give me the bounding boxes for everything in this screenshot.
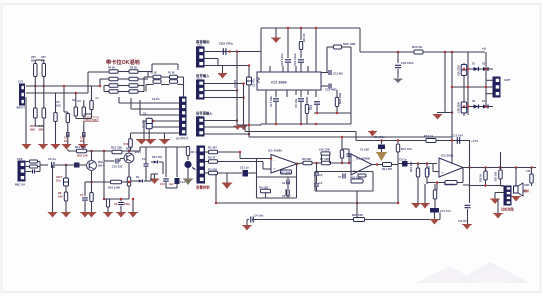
wire — [501, 185, 505, 187]
ground G9 — [137, 140, 147, 145]
ground G12 — [62, 213, 70, 218]
resistor R10 62K — [65, 186, 67, 192]
resistor matrix row3a — [104, 85, 109, 87]
ground G19 — [243, 226, 251, 231]
wire collector Q2 — [128, 151, 130, 153]
resistor R19B 1k — [426, 139, 436, 143]
capacitor C21 1u — [243, 170, 249, 177]
wire minus input — [433, 171, 439, 173]
wire sub-rail — [314, 112, 351, 114]
node — [275, 123, 278, 126]
wire — [139, 147, 141, 151]
wire — [128, 192, 130, 199]
diode bridge upper D1 D2 — [467, 52, 469, 115]
svg-text:C3: C3 — [319, 173, 323, 177]
ground G12b — [48, 213, 57, 218]
wire — [144, 120, 180, 122]
wire base Q2 — [119, 160, 120, 162]
svg-text:+17V: +17V — [471, 139, 478, 143]
node — [103, 150, 106, 153]
wire — [375, 183, 377, 185]
wire +17V line — [356, 140, 470, 142]
svg-text:R1 1K: R1 1K — [168, 72, 175, 75]
resistor R16A 47k — [417, 162, 420, 165]
svg-text:C10 222: C10 222 — [112, 165, 123, 169]
resistor R2 47K — [205, 161, 209, 163]
capacitor CD2 470u — [223, 48, 226, 55]
ground G24 — [430, 220, 439, 225]
wire — [43, 77, 45, 87]
potentiometer CW body — [321, 152, 330, 155]
wire — [452, 86, 493, 88]
node — [484, 166, 487, 169]
node — [228, 50, 231, 53]
resistor R16 — [75, 93, 77, 107]
wire — [166, 187, 177, 189]
svg-text:R8 120K: R8 120K — [280, 171, 291, 175]
decor — [415, 266, 475, 283]
resistor R13 — [130, 133, 132, 139]
pin stubs IC2 bottom — [265, 90, 267, 97]
svg-text:C2B 2200: C2B 2200 — [458, 102, 461, 113]
svg-text:26Y: 26Y — [31, 55, 36, 59]
svg-text:C21 1u: C21 1u — [240, 166, 249, 170]
svg-text:耳机电路: 耳机电路 — [501, 207, 515, 212]
wire — [187, 168, 189, 179]
diode D1 blue — [131, 180, 138, 182]
svg-text:C4 10u: C4 10u — [254, 214, 264, 218]
node — [397, 51, 400, 54]
wire — [331, 162, 353, 164]
capacitor C21 electrolytic — [461, 65, 467, 76]
ground G15 — [104, 213, 112, 218]
resistor R17B — [426, 162, 429, 165]
svg-text:C13 4M2: C13 4M2 — [325, 88, 337, 92]
wire vertical bus a — [236, 52, 238, 126]
wire output IC3 — [463, 167, 536, 169]
wire — [237, 124, 261, 126]
wire — [204, 58, 218, 60]
wire — [52, 165, 54, 212]
resistor R7 small — [30, 160, 38, 163]
resistor matrix row3b — [118, 85, 129, 87]
svg-text:2u2: 2u2 — [169, 182, 174, 186]
label VCA 56K — [84, 117, 98, 122]
wire — [65, 165, 67, 178]
capacitor C15 4M label — [321, 85, 328, 87]
resistor R9 small — [30, 165, 38, 168]
node — [444, 51, 447, 54]
capacitor C18 100u — [285, 60, 291, 62]
wire — [451, 52, 453, 163]
wire — [103, 86, 105, 92]
transistor Q1 9014 — [87, 161, 97, 171]
svg-text:喇叭: 喇叭 — [524, 188, 530, 193]
resistor R22B 360 — [500, 152, 502, 170]
ground G23 — [421, 204, 429, 209]
resistor R23B right edge — [530, 166, 533, 169]
svg-text:OUTPUT: OUTPUT — [176, 137, 189, 141]
wire — [486, 79, 493, 81]
capacitor C6 22 — [287, 180, 289, 185]
svg-text:高音输出: 高音输出 — [196, 39, 210, 44]
wire — [34, 77, 36, 87]
svg-text:C6 102: C6 102 — [282, 182, 291, 185]
connector CZ8 headphone — [504, 186, 511, 205]
resistor R1B — [153, 75, 161, 78]
resistor R2B — [170, 75, 178, 78]
resistor in box — [358, 174, 366, 177]
wire — [342, 148, 349, 150]
svg-text:C9 1u: C9 1u — [399, 158, 407, 162]
capacitor C1 47u — [248, 66, 250, 78]
capacitor C1B 100u — [380, 139, 383, 142]
svg-text:C14: C14 — [160, 182, 165, 186]
svg-text:R22 10W: R22 10W — [343, 42, 356, 46]
capacitor C13 — [314, 184, 319, 186]
svg-text:CZP: CZP — [504, 78, 510, 82]
svg-text:C19 100u: C19 100u — [293, 53, 297, 66]
ground G2 — [222, 66, 224, 74]
svg-text:R4 10K: R4 10K — [259, 186, 268, 190]
svg-text:C5: C5 — [56, 100, 60, 104]
svg-text:R24 1K: R24 1K — [303, 33, 306, 42]
resistor matrix row4b — [118, 91, 129, 93]
resistor R25 2R2 — [335, 98, 338, 107]
svg-text:INPUT: INPUT — [17, 106, 26, 110]
resistor R15A 1K2 — [397, 141, 399, 144]
ground G22 — [412, 204, 420, 209]
resistor R18 22K — [445, 181, 457, 185]
node — [65, 164, 68, 167]
svg-text:26Y: 26Y — [41, 55, 46, 59]
capacitor C7 22u electrolytic — [64, 178, 69, 186]
ground G16 — [117, 213, 125, 218]
wire — [103, 162, 105, 199]
resistor R11 15K — [77, 149, 87, 153]
resistor R1 47K — [205, 151, 209, 153]
svg-text:62K: 62K — [58, 195, 63, 199]
connector CZ5 OUTPUT — [180, 97, 187, 135]
wire — [138, 71, 152, 73]
svg-text:R14 R1: R14 R1 — [427, 166, 431, 175]
svg-text:R17 360: R17 360 — [495, 171, 498, 181]
wire — [485, 52, 487, 62]
ground small b — [240, 126, 247, 130]
svg-text:C16: C16 — [309, 104, 313, 110]
wire — [372, 164, 382, 166]
svg-text:C17 28u: C17 28u — [269, 96, 273, 107]
wire long bus to right — [244, 125, 246, 132]
svg-text:音量控制: 音量控制 — [196, 185, 210, 190]
speaker SP1 — [514, 186, 519, 193]
wire — [356, 203, 358, 220]
node — [468, 166, 471, 169]
wire — [204, 97, 244, 99]
wire — [25, 97, 27, 144]
wire — [359, 28, 361, 52]
ground gray — [394, 79, 402, 83]
svg-text:103: 103 — [64, 139, 69, 143]
ground G1 — [275, 28, 277, 38]
svg-text:R2 1K: R2 1K — [150, 72, 157, 75]
resistor R20B 10K — [354, 218, 365, 222]
svg-text:22u: 22u — [56, 179, 61, 183]
svg-text:R6 10K: R6 10K — [302, 157, 311, 161]
capacitor C7 10u electrolytic — [146, 118, 152, 129]
node — [515, 166, 518, 169]
wire — [151, 64, 153, 72]
wire feedback — [427, 182, 463, 184]
wire — [64, 111, 68, 113]
svg-text:R18 1K: R18 1K — [480, 174, 483, 182]
svg-text:IC3 2030: IC3 2030 — [441, 154, 454, 158]
ground G26b — [463, 225, 471, 230]
connector CZ4 aux input — [197, 117, 205, 136]
svg-text:R22 15K: R22 15K — [77, 154, 88, 158]
wire — [84, 113, 92, 115]
svg-text:R5A: R5A — [30, 124, 36, 128]
wire — [486, 93, 493, 95]
resistor R11 387 — [383, 163, 392, 167]
connector CZ1 signal input — [197, 80, 205, 99]
wire — [265, 97, 267, 104]
svg-text:R1 467: R1 467 — [208, 146, 217, 150]
svg-text:C28: C28 — [526, 170, 531, 173]
wire long bus lower — [249, 136, 452, 138]
svg-text:信号源输入: 信号源输入 — [196, 111, 213, 116]
capacitor C2 223 — [287, 190, 289, 195]
wire rail y218 — [252, 219, 440, 221]
ground G6 — [51, 145, 60, 150]
wire — [183, 77, 185, 97]
svg-text:56K: 56K — [30, 128, 35, 132]
capacitor small — [33, 170, 35, 174]
svg-text:R25 2R2: R25 2R2 — [338, 92, 342, 104]
wire — [239, 152, 241, 159]
svg-text:R3 3K: R3 3K — [130, 67, 137, 70]
wire — [99, 79, 101, 86]
ground small a — [234, 126, 241, 130]
resistor R17 emitter — [90, 193, 93, 202]
capacitor in box — [343, 174, 345, 179]
ground G7 — [62, 145, 71, 150]
diode D13 blue — [151, 161, 153, 163]
svg-text:MIC-2A: MIC-2A — [15, 183, 26, 187]
wire — [437, 112, 452, 114]
resistor R26 76 — [306, 97, 308, 104]
wire — [215, 174, 217, 203]
wire — [26, 92, 88, 94]
wire — [436, 183, 438, 191]
capacitor C4 — [348, 152, 350, 163]
ground G20 — [369, 132, 377, 137]
svg-text:C18 100u: C18 100u — [280, 53, 284, 66]
wire — [161, 84, 170, 86]
red ground mid — [150, 179, 159, 184]
wire — [131, 132, 180, 134]
capacitor C24 blue — [176, 147, 178, 177]
wire — [35, 125, 44, 127]
svg-text:R6: R6 — [31, 59, 35, 63]
resistor R2C — [170, 80, 178, 83]
capacitor C19 100u — [298, 60, 304, 62]
ground G11 — [160, 140, 170, 145]
resistor R19 120K — [111, 180, 122, 184]
capacitor C11 104 — [145, 164, 147, 166]
svg-text:C2R: C2R — [524, 183, 529, 187]
wire bottom rail IC2 — [261, 123, 351, 125]
wire — [287, 28, 289, 58]
diode bridge lower D3 D4 — [463, 106, 493, 108]
wire — [119, 102, 180, 104]
node — [499, 166, 502, 169]
wire — [104, 198, 129, 200]
capacitor C23 100u — [397, 52, 399, 63]
wire rail y151 — [68, 150, 122, 152]
ground gray under LED — [184, 179, 193, 185]
svg-text:R12 22K: R12 22K — [111, 146, 123, 150]
resistor R15 — [83, 100, 85, 107]
capacitor C16 203 — [83, 122, 85, 134]
svg-text:103: 103 — [56, 104, 61, 108]
svg-text:C7204: C7204 — [233, 80, 237, 88]
node — [356, 202, 359, 205]
node — [499, 166, 502, 169]
capacitor C14 2u2 — [165, 147, 167, 177]
resistor R20 5K6 — [414, 50, 423, 54]
svg-text:C13 M2: C13 M2 — [333, 72, 343, 76]
wire — [118, 97, 120, 103]
capacitor C22 electrolytic — [461, 102, 467, 113]
capacitor C2 103 — [67, 132, 69, 137]
svg-text:56K: 56K — [39, 128, 44, 132]
resistor R7 10K — [322, 161, 331, 165]
capacitor C5 10u — [298, 99, 304, 101]
svg-text:R11 15K: R11 15K — [75, 145, 87, 149]
ground G10 — [146, 140, 156, 145]
wire — [434, 213, 436, 220]
connector CZ3 power — [493, 77, 500, 97]
wire — [356, 191, 358, 203]
wire — [162, 162, 164, 174]
wire — [469, 141, 471, 186]
svg-text:R8: R8 — [58, 191, 62, 195]
wire rail y200 — [216, 202, 398, 204]
svg-text:C13 104: C13 104 — [452, 134, 463, 138]
svg-text:R19 1k: R19 1k — [424, 134, 434, 138]
svg-text:C4 10M: C4 10M — [360, 149, 369, 152]
resistor R8A 56K — [34, 86, 36, 108]
resistor matrix row1a — [109, 70, 118, 73]
node — [270, 157, 273, 160]
wire — [143, 77, 145, 92]
feedback box IC1B — [314, 172, 316, 192]
svg-text:CZ1: CZ1 — [18, 80, 24, 84]
wire — [355, 132, 357, 141]
svg-text:R3 22K: R3 22K — [208, 167, 217, 171]
svg-text:R4 3K: R4 3K — [108, 67, 115, 70]
node output — [296, 162, 299, 165]
ground G14 — [81, 213, 89, 218]
resistor R23 1K — [300, 28, 302, 40]
connector CZ2 treble output — [197, 47, 205, 67]
resistor R12 22K — [112, 150, 122, 154]
capacitor C4 10u — [251, 217, 253, 223]
wire — [515, 168, 517, 187]
svg-text:R20 5K: R20 5K — [412, 45, 423, 49]
svg-text:R18 22K: R18 22K — [444, 183, 455, 187]
wire — [360, 51, 414, 53]
wire emitter Q2 — [128, 164, 130, 178]
ground G13 — [87, 213, 96, 218]
svg-text:CW 10K: CW 10K — [319, 148, 331, 152]
wire — [463, 184, 470, 186]
wire — [146, 84, 154, 86]
capacitor C13B 104 — [457, 137, 459, 144]
ground G17 — [129, 213, 137, 218]
svg-text:C1 100u: C1 100u — [374, 135, 385, 139]
svg-text:100u: 100u — [124, 202, 130, 206]
wire — [470, 185, 505, 187]
wire — [350, 47, 352, 124]
svg-text:R13: R13 — [124, 142, 129, 146]
wire — [147, 72, 149, 78]
wire — [204, 65, 249, 67]
wire — [485, 62, 487, 107]
svg-text:C5 10u: C5 10u — [294, 98, 298, 108]
svg-text:IC1 4558A: IC1 4558A — [268, 149, 283, 153]
wire — [247, 219, 249, 221]
svg-text:R2 47: R2 47 — [208, 156, 216, 160]
wire collector Q1 — [91, 151, 93, 160]
wire — [315, 28, 317, 72]
wire — [131, 108, 180, 110]
resistor R21B 2R2 — [485, 168, 487, 172]
resistor R22 10W — [327, 46, 333, 48]
capacitor C5 bypass — [84, 182, 86, 196]
capacitor C8 100u — [120, 199, 122, 201]
node — [451, 139, 454, 142]
svg-text:C9 1u: C9 1u — [48, 157, 56, 161]
wire vertical bus b — [243, 84, 245, 126]
resistor R7A 56K — [43, 86, 45, 108]
capacitor C17B 47u — [430, 208, 439, 213]
svg-text:203: 203 — [80, 139, 85, 143]
svg-text:C17 47u: C17 47u — [440, 209, 451, 213]
capacitor C12 — [315, 162, 318, 165]
ground G26 — [497, 199, 499, 213]
wire — [262, 162, 264, 170]
resistor R1C — [153, 80, 161, 83]
wire — [204, 120, 237, 122]
op-amp IC2 LM3886 power amplifier — [257, 72, 321, 90]
capacitor C17 28u — [273, 99, 279, 101]
svg-text:IC2 3886: IC2 3886 — [271, 81, 286, 85]
svg-text:C5: C5 — [80, 193, 84, 197]
svg-text:1M: 1M — [72, 99, 75, 102]
resistor R4 10K — [261, 189, 271, 193]
ground G8 — [79, 145, 87, 150]
resistor R6 10K — [303, 161, 312, 165]
svg-text:C8 47u: C8 47u — [152, 98, 160, 101]
ground G4 — [22, 145, 31, 150]
wire — [297, 162, 303, 165]
ground G18 — [226, 173, 228, 184]
resistor matrix row4a — [104, 91, 109, 93]
ground G27 — [512, 197, 520, 202]
capacitor C15 M2 label — [321, 72, 328, 74]
